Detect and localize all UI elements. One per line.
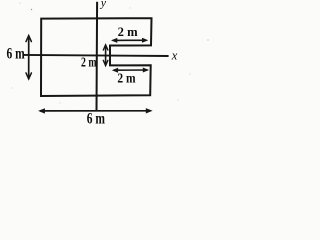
svg-text:6 m: 6 m	[7, 46, 26, 63]
y-axis	[96, 2, 99, 111]
svg-text:2 m: 2 m	[118, 24, 138, 39]
paper background	[0, 0, 221, 125]
dimension arrow 2 m notch height (vertical double arrow)	[103, 45, 108, 66]
dimension arrow 6 m height (left, vertical double arrow)	[26, 36, 31, 79]
svg-text:6 m: 6 m	[87, 110, 106, 125]
dimension arrow 6 m width (bottom, horizontal double arrow)	[38, 108, 153, 114]
svg-text:2 m: 2 m	[117, 71, 135, 86]
faint scan speckles	[11, 2, 209, 104]
dimension arrow 2 m (top notch depth, horizontal double arrow)	[111, 38, 148, 43]
svg-text:x: x	[171, 49, 178, 63]
dimension arrow 2 m (bottom notch depth, horizontal double arrow)	[112, 68, 149, 73]
svg-text:y: y	[100, 0, 107, 10]
x-axis	[24, 55, 169, 56]
svg-text:2 m: 2 m	[81, 55, 97, 70]
plate outline with right-side notch	[41, 18, 152, 96]
